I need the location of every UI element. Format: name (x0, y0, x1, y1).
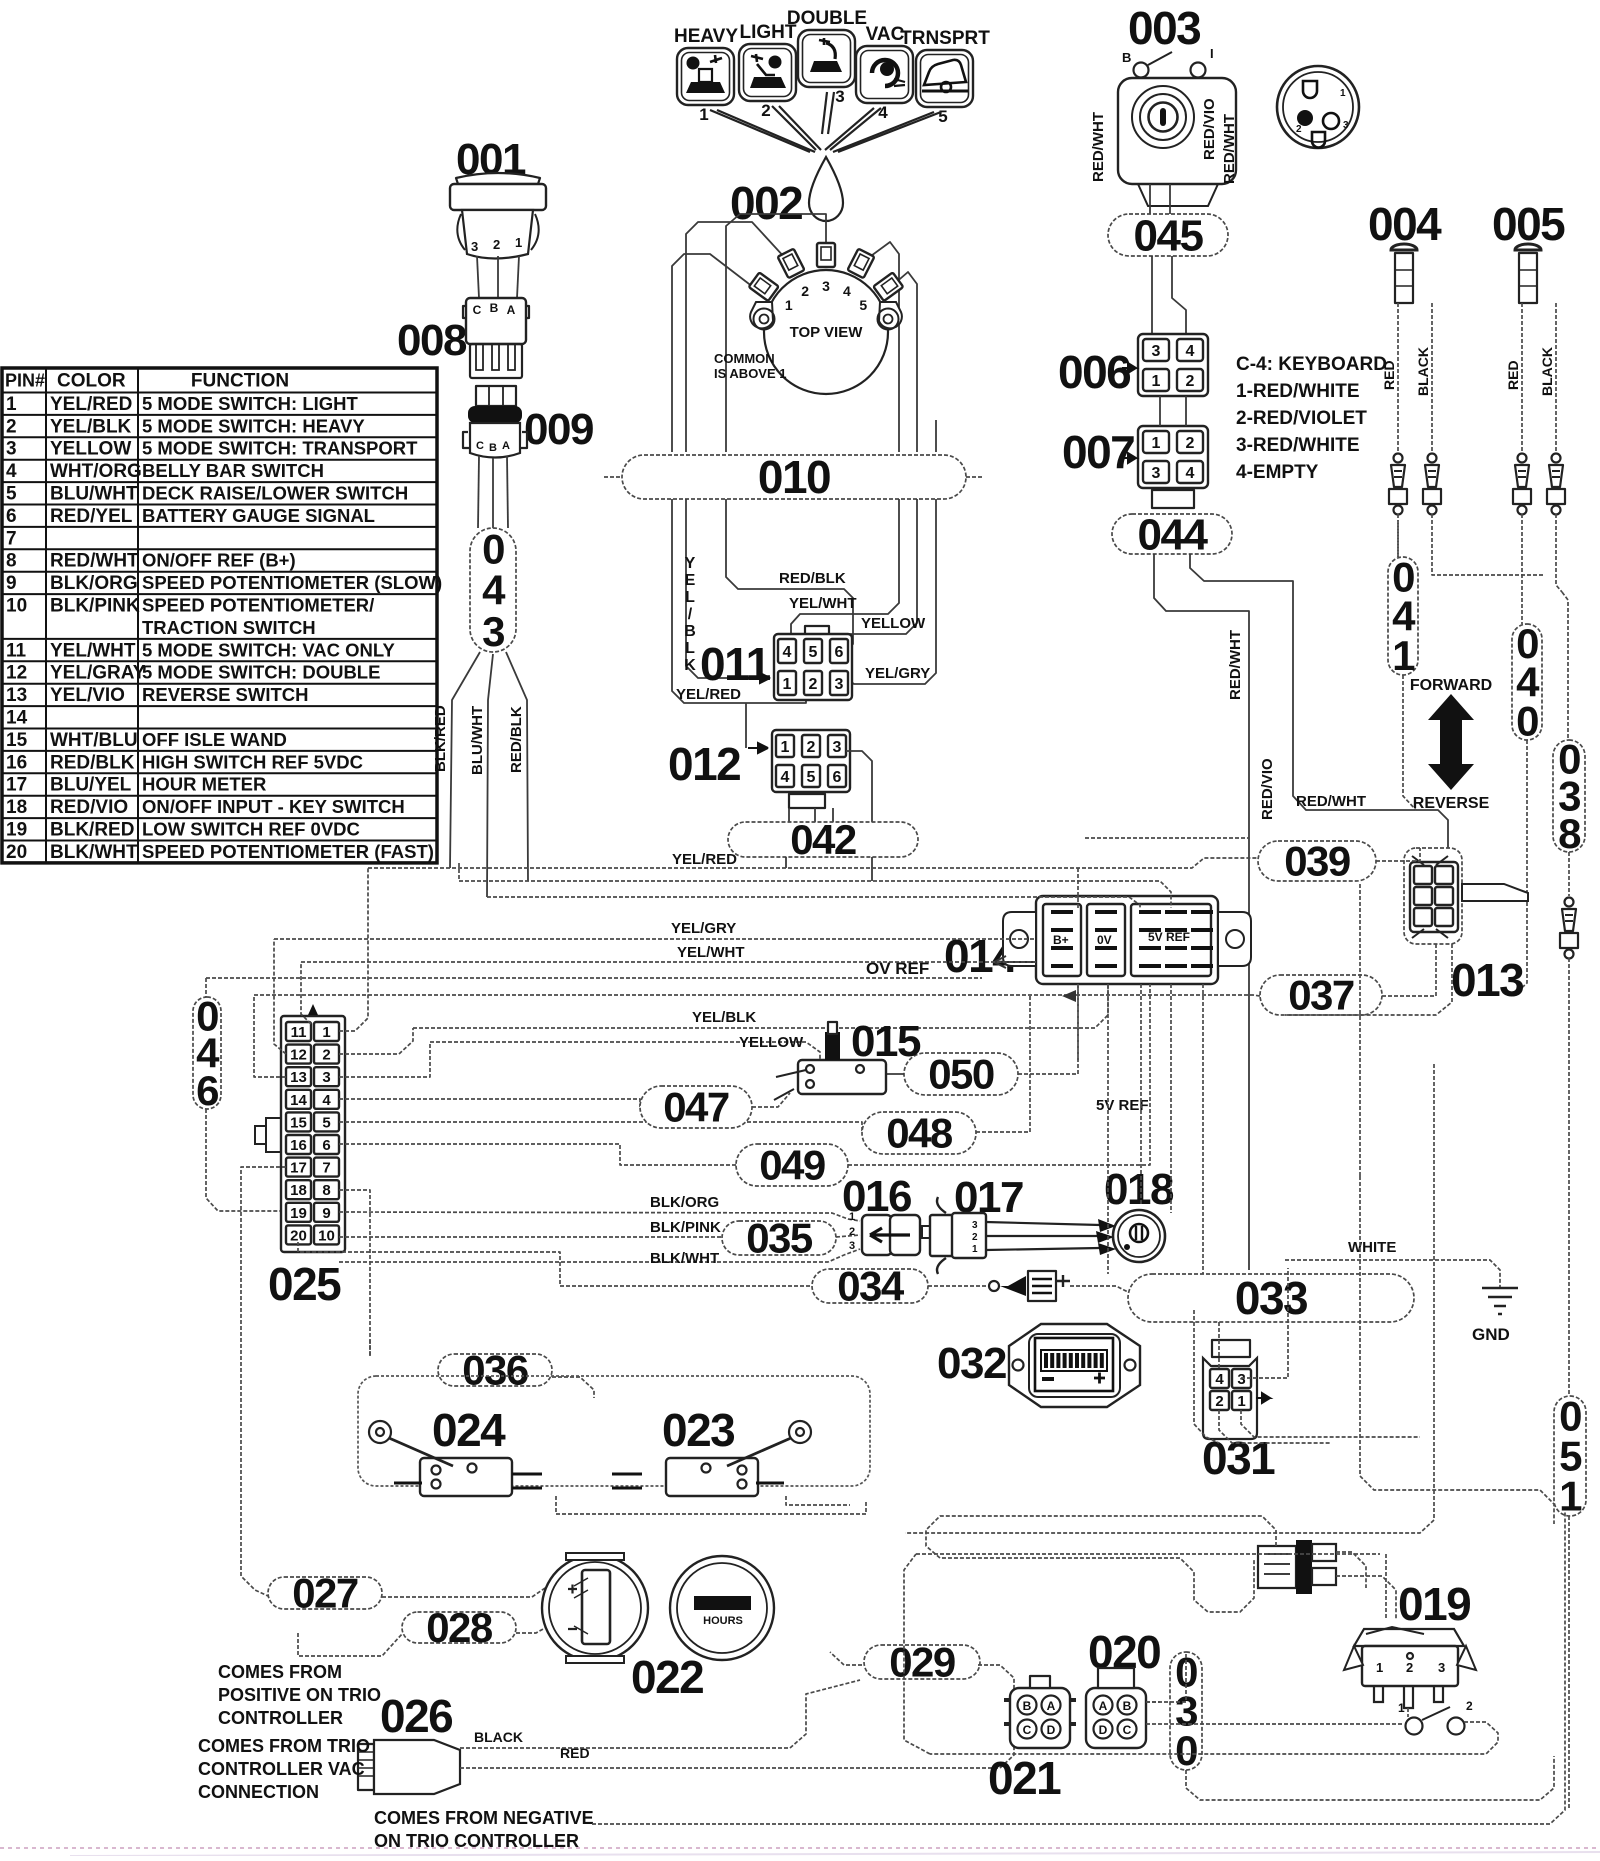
inline terminal pair (1428, 454, 1437, 463)
svg-text:A: A (1047, 1699, 1056, 1713)
pill 027 (268, 1570, 382, 1617)
svg-text:2: 2 (849, 1226, 855, 1238)
bus yel/red (368, 858, 1258, 868)
svg-text:19: 19 (290, 1205, 307, 1222)
svg-text:6: 6 (833, 769, 842, 786)
svg-text:HOURS: HOURS (703, 1615, 743, 1627)
svg-text:008: 008 (397, 316, 467, 365)
svg-text:SPEED POTENTIOMETER/: SPEED POTENTIOMETER/ (142, 595, 374, 616)
svg-text:1: 1 (972, 1244, 978, 1255)
svg-text:BLU/WHT: BLU/WHT (469, 706, 486, 775)
contact symbol (1406, 1718, 1423, 1735)
pill 042 (728, 816, 918, 863)
svg-text:027: 027 (292, 1570, 358, 1617)
svg-text:19: 19 (6, 820, 27, 841)
svg-text:026: 026 (380, 1690, 452, 1742)
bus 7 (254, 995, 1260, 996)
rotary terminal 5 (873, 272, 903, 301)
svg-text:1: 1 (1340, 88, 1346, 99)
terminal B (1134, 63, 1149, 78)
pill 033 (1128, 1272, 1414, 1324)
pill 045 (1108, 211, 1228, 260)
svg-text:I: I (1210, 46, 1214, 61)
svg-text:RED/BLK: RED/BLK (779, 570, 846, 587)
svg-text:2: 2 (1466, 1699, 1473, 1713)
019 wires (1407, 1708, 1409, 1717)
svg-text:YEL/WHT: YEL/WHT (677, 944, 745, 961)
pill 029 (864, 1639, 980, 1686)
svg-text:15: 15 (6, 730, 28, 751)
svg-text:FORWARD: FORWARD (1410, 677, 1492, 694)
svg-text:1: 1 (1559, 1473, 1582, 1520)
svg-text:1: 1 (781, 739, 790, 756)
svg-text:BLK/WHT: BLK/WHT (50, 842, 138, 863)
svg-text:RED/BLK: RED/BLK (508, 706, 525, 773)
svg-text:A: A (1099, 1699, 1108, 1713)
svg-text:2: 2 (493, 237, 500, 252)
svg-text:021: 021 (988, 1752, 1061, 1804)
svg-text:CONTROLLER VAC: CONTROLLER VAC (198, 1759, 365, 1779)
svg-text:2: 2 (807, 739, 816, 756)
svg-text:HEAVY: HEAVY (674, 26, 738, 47)
svg-text:RED/WHT: RED/WHT (1221, 114, 1238, 184)
pill 048 (862, 1110, 976, 1157)
svg-text:047: 047 (663, 1084, 729, 1131)
right rail D yel/wht to pin5 (791, 499, 899, 646)
svg-text:4: 4 (1215, 1371, 1224, 1388)
svg-text:024: 024 (432, 1404, 506, 1456)
svg-text:4: 4 (1186, 343, 1195, 360)
pill 047 (640, 1084, 752, 1131)
wires 025 right to pills (339, 1099, 640, 1107)
svg-text:5 MODE SWITCH: HEAVY: 5 MODE SWITCH: HEAVY (142, 415, 365, 436)
svg-text:6: 6 (6, 506, 17, 527)
svg-text:009: 009 (524, 405, 593, 454)
svg-text:1: 1 (1152, 373, 1161, 390)
svg-text:RED/VIO: RED/VIO (1201, 98, 1218, 160)
bus yel/gry (274, 938, 1036, 940)
svg-text:1: 1 (322, 1024, 330, 1041)
svg-text:C-4: KEYBOARD: C-4: KEYBOARD (1236, 354, 1387, 375)
circular connector (1277, 66, 1359, 148)
bus yel/blk (413, 984, 1108, 1028)
pill 043 (470, 525, 516, 655)
wires around 039 037 013 (1376, 848, 1420, 861)
svg-text:TOP VIEW: TOP VIEW (790, 324, 864, 341)
svg-text:2: 2 (761, 101, 770, 120)
svg-text:042: 042 (790, 816, 856, 863)
wires double connector (926, 1516, 1276, 1612)
svg-text:REVERSE SWITCH: REVERSE SWITCH (142, 684, 309, 705)
long loop right (905, 1064, 1434, 1533)
svg-text:15: 15 (290, 1114, 307, 1131)
wires 006 007 (1159, 396, 1161, 426)
svg-text:REVERSE: REVERSE (1413, 795, 1490, 812)
svg-text:3: 3 (849, 1240, 855, 1252)
double connector above (1258, 1546, 1296, 1588)
svg-text:YELLOW: YELLOW (739, 1034, 804, 1051)
svg-text:5: 5 (938, 107, 947, 126)
svg-text:5: 5 (322, 1114, 330, 1131)
pill 040 (1512, 620, 1542, 744)
three labelled wires (450, 652, 480, 868)
terminal I (1191, 63, 1206, 78)
svg-text:ON/OFF REF (B+): ON/OFF REF (B+) (142, 550, 296, 571)
ground symbol (1482, 1288, 1518, 1314)
svg-text:8: 8 (322, 1182, 330, 1199)
svg-text:RED/WHT: RED/WHT (50, 551, 139, 572)
right rail E yellow to pin2 (817, 499, 917, 660)
svg-text:YEL/WHT: YEL/WHT (789, 595, 857, 612)
svg-text:005: 005 (1492, 198, 1565, 250)
left rail B yel/red to 011 pin1 (686, 499, 748, 678)
wires 020 030 (1146, 1652, 1186, 1702)
svg-text:3: 3 (6, 439, 17, 460)
rotary terminal 2 (778, 249, 805, 279)
svg-text:YEL/RED: YEL/RED (672, 851, 737, 868)
svg-text:5: 5 (809, 644, 818, 661)
svg-text:3: 3 (1152, 343, 1161, 360)
svg-text:C: C (1023, 1723, 1032, 1737)
svg-text:5 MODE SWITCH: LIGHT: 5 MODE SWITCH: LIGHT (142, 393, 359, 414)
svg-text:044: 044 (1138, 510, 1209, 559)
svg-text:DECK RAISE/LOWER SWITCH: DECK RAISE/LOWER SWITCH (142, 483, 408, 504)
svg-text:CONTROLLER: CONTROLLER (218, 1708, 343, 1728)
pill 037 (1260, 972, 1382, 1019)
inline terminal pair (1552, 454, 1561, 463)
svg-text:1: 1 (785, 297, 793, 313)
svg-text:BLACK: BLACK (474, 1729, 523, 1745)
wires 017 018 (986, 1222, 1100, 1225)
svg-text:1: 1 (1398, 1701, 1405, 1715)
svg-text:FUNCTION: FUNCTION (191, 371, 289, 392)
svg-text:WHT/BLU: WHT/BLU (50, 730, 138, 751)
svg-text:4: 4 (6, 461, 17, 482)
025 latch (255, 1118, 281, 1152)
pill 049 (736, 1142, 848, 1189)
svg-text:1: 1 (699, 105, 708, 124)
svg-text:HOUR METER: HOUR METER (142, 774, 266, 795)
svg-text:C: C (476, 440, 484, 452)
svg-text:9: 9 (322, 1205, 330, 1222)
key wires down (1149, 184, 1151, 214)
svg-text:004: 004 (1368, 198, 1442, 250)
svg-text:029: 029 (889, 1639, 955, 1686)
svg-text:BLU/WHT: BLU/WHT (50, 484, 138, 505)
handle wedge (1462, 884, 1528, 901)
svg-text:C: C (473, 303, 482, 317)
pill 050 (904, 1051, 1018, 1098)
svg-text:2: 2 (1296, 124, 1302, 135)
svg-text:YEL/VIO: YEL/VIO (50, 685, 125, 706)
svg-text:3: 3 (1438, 1660, 1445, 1675)
svg-text:013: 013 (1451, 954, 1523, 1006)
svg-text:3: 3 (1343, 120, 1349, 131)
svg-text:8: 8 (6, 551, 17, 572)
svg-text:4: 4 (878, 103, 888, 122)
svg-text:10: 10 (318, 1227, 335, 1244)
svg-text:11: 11 (6, 640, 27, 661)
svg-text:8: 8 (1558, 810, 1581, 857)
svg-text:3: 3 (1237, 1371, 1245, 1388)
svg-text:BLK/RED: BLK/RED (50, 820, 134, 841)
mid vertical wires 014 to 033 (1077, 984, 1079, 1060)
negative wire (592, 1512, 1565, 1824)
svg-text:050: 050 (928, 1051, 994, 1098)
svg-text:0: 0 (482, 525, 504, 572)
svg-text:4: 4 (482, 567, 506, 614)
svg-text:OFF ISLE WAND: OFF ISLE WAND (142, 729, 287, 750)
svg-text:036: 036 (462, 1347, 528, 1394)
svg-text:BLK/PINK: BLK/PINK (650, 1219, 721, 1236)
battery gauge 022 (542, 1555, 648, 1661)
svg-text:PIN#: PIN# (5, 371, 45, 391)
svg-text:RED/WHT: RED/WHT (1090, 112, 1107, 182)
svg-text:6: 6 (322, 1137, 330, 1154)
svg-text:0V: 0V (1097, 933, 1112, 947)
pill 051 (1554, 1393, 1586, 1520)
svg-text:023: 023 (662, 1404, 734, 1456)
wires 027 028 to battery gauge (382, 1586, 548, 1597)
svg-text:LOW SWITCH REF 0VDC: LOW SWITCH REF 0VDC (142, 819, 360, 840)
svg-text:007: 007 (1062, 426, 1134, 478)
svg-text:14: 14 (6, 708, 28, 729)
pill 039 (1258, 838, 1376, 885)
svg-text:0: 0 (1175, 1727, 1197, 1774)
svg-text:D: D (1099, 1723, 1108, 1737)
svg-text:18: 18 (290, 1182, 307, 1199)
svg-text:GND: GND (1472, 1325, 1510, 1344)
svg-text:ON/OFF INPUT - KEY SWITCH: ON/OFF INPUT - KEY SWITCH (142, 796, 405, 817)
svg-text:SPEED POTENTIOMETER (FAST): SPEED POTENTIOMETER (FAST) (142, 841, 434, 862)
wire 012 pin3 right (846, 751, 872, 822)
svg-text:018: 018 (1104, 1165, 1174, 1214)
svg-text:RED/BLK: RED/BLK (50, 752, 135, 773)
pill 028 (402, 1604, 516, 1651)
rotary terminal 3 (817, 243, 835, 267)
svg-text:TRACTION SWITCH: TRACTION SWITCH (142, 617, 316, 638)
svg-text:1: 1 (6, 394, 17, 415)
svg-text:14: 14 (290, 1092, 307, 1109)
svg-text:A: A (507, 303, 516, 317)
wires from 025 pins (339, 868, 368, 1031)
svg-text:YELLOW: YELLOW (861, 615, 926, 632)
svg-text:3: 3 (471, 239, 478, 254)
svg-text:A: A (502, 440, 510, 452)
rotary switch 010 (764, 270, 888, 394)
droplet 002 (809, 157, 843, 221)
pill 034 (812, 1263, 928, 1310)
pill 046 (193, 992, 221, 1114)
switch bottom wire (556, 1496, 866, 1514)
wire black (460, 1680, 860, 1748)
svg-text:2: 2 (801, 283, 809, 299)
svg-text:20: 20 (6, 842, 27, 863)
svg-text:18: 18 (6, 797, 27, 818)
svg-text:COMES FROM: COMES FROM (218, 1662, 342, 1682)
svg-text:TRNSPRT: TRNSPRT (900, 28, 990, 49)
svg-text:5V REF: 5V REF (1148, 930, 1190, 944)
pin function table (2, 368, 437, 863)
svg-text:3-RED/WHITE: 3-RED/WHITE (1236, 435, 1360, 456)
svg-text:WHITE: WHITE (1348, 1239, 1396, 1256)
svg-text:20: 20 (290, 1227, 307, 1244)
svg-text:HIGH SWITCH REF 5VDC: HIGH SWITCH REF 5VDC (142, 751, 363, 772)
svg-text:C: C (1123, 1723, 1132, 1737)
svg-text:BLK/RED: BLK/RED (432, 705, 449, 772)
svg-text:RED/YEL: RED/YEL (50, 506, 133, 527)
wires 001 to 008 (477, 256, 479, 298)
svg-text:13: 13 (6, 685, 27, 706)
wires 042 bottom (785, 857, 787, 868)
svg-text:BLK/ORG: BLK/ORG (650, 1194, 719, 1211)
svg-text:B: B (1023, 1699, 1032, 1713)
svg-text:YELLOW: YELLOW (50, 439, 131, 460)
svg-text:10: 10 (6, 596, 27, 617)
svg-text:9: 9 (6, 573, 17, 594)
svg-text:ON TRIO CONTROLLER: ON TRIO CONTROLLER (374, 1831, 579, 1851)
svg-text:POSITIVE ON TRIO: POSITIVE ON TRIO (218, 1685, 381, 1705)
bus yel/wht (301, 961, 1036, 963)
svg-text:1: 1 (515, 235, 522, 250)
rotary terminal 1 (749, 272, 779, 301)
svg-text:BLK/ORG: BLK/ORG (50, 573, 138, 594)
svg-text:2: 2 (1186, 373, 1195, 390)
diode assembly (928, 1285, 988, 1287)
svg-text:RED/VIO: RED/VIO (1259, 758, 1276, 820)
svg-text:3: 3 (1152, 465, 1161, 482)
svg-text:019: 019 (1398, 1578, 1470, 1630)
svg-text:025: 025 (268, 1258, 341, 1310)
arrow into 014 (994, 956, 1036, 968)
svg-text:0: 0 (1516, 697, 1538, 744)
pill 035 (722, 1215, 836, 1262)
svg-text:1: 1 (1237, 1393, 1245, 1410)
svg-text:YEL/BLK: YEL/BLK (692, 1009, 756, 1026)
svg-text:3: 3 (482, 608, 504, 655)
svg-text:CONNECTION: CONNECTION (198, 1782, 319, 1802)
svg-text:2: 2 (809, 676, 818, 693)
svg-text:7: 7 (322, 1160, 330, 1177)
svg-text:YEL/WHT: YEL/WHT (50, 640, 136, 661)
svg-text:5: 5 (6, 484, 17, 505)
svg-text:015: 015 (851, 1017, 921, 1066)
wires 012 to 042 (788, 808, 790, 822)
scan edge artifact (0, 1847, 1600, 1849)
svg-text:RED/WHT: RED/WHT (1227, 630, 1244, 700)
inline terminal pair (1518, 454, 1527, 463)
svg-text:049: 049 (759, 1142, 825, 1189)
svg-text:BLACK: BLACK (1539, 347, 1555, 396)
svg-text:037: 037 (1288, 972, 1354, 1019)
svg-text:BLK/PINK: BLK/PINK (50, 596, 140, 617)
left rail C red/blk to 011 pin6 (726, 499, 853, 652)
svg-text:045: 045 (1134, 211, 1204, 260)
svg-text:RED/WHT: RED/WHT (1296, 793, 1366, 810)
pill 010 (622, 451, 966, 503)
svg-text:006: 006 (1058, 346, 1130, 398)
inline terminal pair (1394, 454, 1403, 463)
svg-text:COMES FROM TRIO: COMES FROM TRIO (198, 1736, 370, 1756)
svg-text:IS ABOVE 1: IS ABOVE 1 (714, 366, 786, 381)
svg-text:1: 1 (1392, 632, 1415, 679)
svg-text:3: 3 (835, 676, 844, 693)
svg-text:5: 5 (859, 297, 867, 313)
wires 009 down (478, 456, 479, 528)
svg-text:3: 3 (322, 1069, 330, 1086)
svg-text:VAC: VAC (866, 24, 905, 45)
svg-text:028: 028 (426, 1604, 493, 1651)
svg-text:3: 3 (835, 87, 844, 106)
svg-text:3: 3 (833, 739, 842, 756)
svg-text:012: 012 (668, 738, 740, 790)
svg-text:RED/VIO: RED/VIO (50, 797, 128, 818)
svg-text:6: 6 (196, 1067, 218, 1114)
pill 030 (1170, 1648, 1202, 1774)
svg-text:2: 2 (6, 416, 17, 437)
svg-text:12: 12 (6, 663, 27, 684)
svg-text:DOUBLE: DOUBLE (787, 8, 867, 29)
bus 3 (487, 897, 1140, 908)
bus yellow (430, 1042, 820, 1060)
svg-text:2: 2 (972, 1232, 978, 1243)
svg-text:035: 035 (746, 1215, 813, 1262)
wires below 044 (1154, 554, 1249, 1270)
wire to 038 (1562, 592, 1568, 740)
svg-text:11: 11 (291, 1024, 307, 1041)
svg-text:16: 16 (290, 1137, 307, 1154)
rotary switch top loops (672, 254, 753, 452)
right rail F yel/gry from pin3 (847, 499, 936, 684)
svg-text:4: 4 (1186, 465, 1195, 482)
svg-text:4-EMPTY: 4-EMPTY (1236, 462, 1319, 483)
svg-text:YEL/RED: YEL/RED (50, 394, 132, 415)
svg-text:010: 010 (758, 451, 830, 503)
bus 6 (206, 977, 982, 979)
svg-text:WHT/ORG: WHT/ORG (50, 461, 142, 482)
svg-text:17: 17 (6, 775, 27, 796)
svg-text:5 MODE SWITCH: TRANSPORT: 5 MODE SWITCH: TRANSPORT (142, 438, 418, 459)
svg-text:BELLY BAR SWITCH: BELLY BAR SWITCH (142, 460, 324, 481)
svg-text:YEL/BLK: YEL/BLK (50, 416, 132, 437)
selector lines (710, 110, 810, 152)
inline fuse right (1565, 898, 1574, 907)
rotary terminal 4 (847, 249, 874, 279)
svg-text:B+: B+ (1053, 933, 1069, 947)
svg-text:2: 2 (1215, 1393, 1223, 1410)
svg-text:2: 2 (1406, 1660, 1413, 1675)
svg-text:6: 6 (835, 644, 844, 661)
left rail A to 012 (672, 499, 806, 703)
svg-text:1: 1 (1152, 435, 1161, 452)
wire red (460, 1746, 1014, 1768)
svg-text:16: 16 (6, 752, 27, 773)
svg-text:033: 033 (1235, 1272, 1307, 1324)
svg-text:COLOR: COLOR (57, 371, 126, 392)
svg-text:COMMON: COMMON (714, 351, 775, 366)
pill 036 (438, 1347, 552, 1394)
svg-text:1: 1 (783, 676, 792, 693)
wires 031 (1218, 1322, 1220, 1369)
svg-text:4: 4 (322, 1092, 331, 1109)
svg-text:4: 4 (783, 644, 792, 661)
svg-text:022: 022 (631, 1651, 703, 1703)
svg-text:5: 5 (807, 769, 816, 786)
pill 044 (1112, 510, 1232, 559)
svg-text:D: D (1047, 1723, 1056, 1737)
svg-text:1: 1 (1376, 1660, 1383, 1675)
bus 2 (459, 881, 1171, 908)
